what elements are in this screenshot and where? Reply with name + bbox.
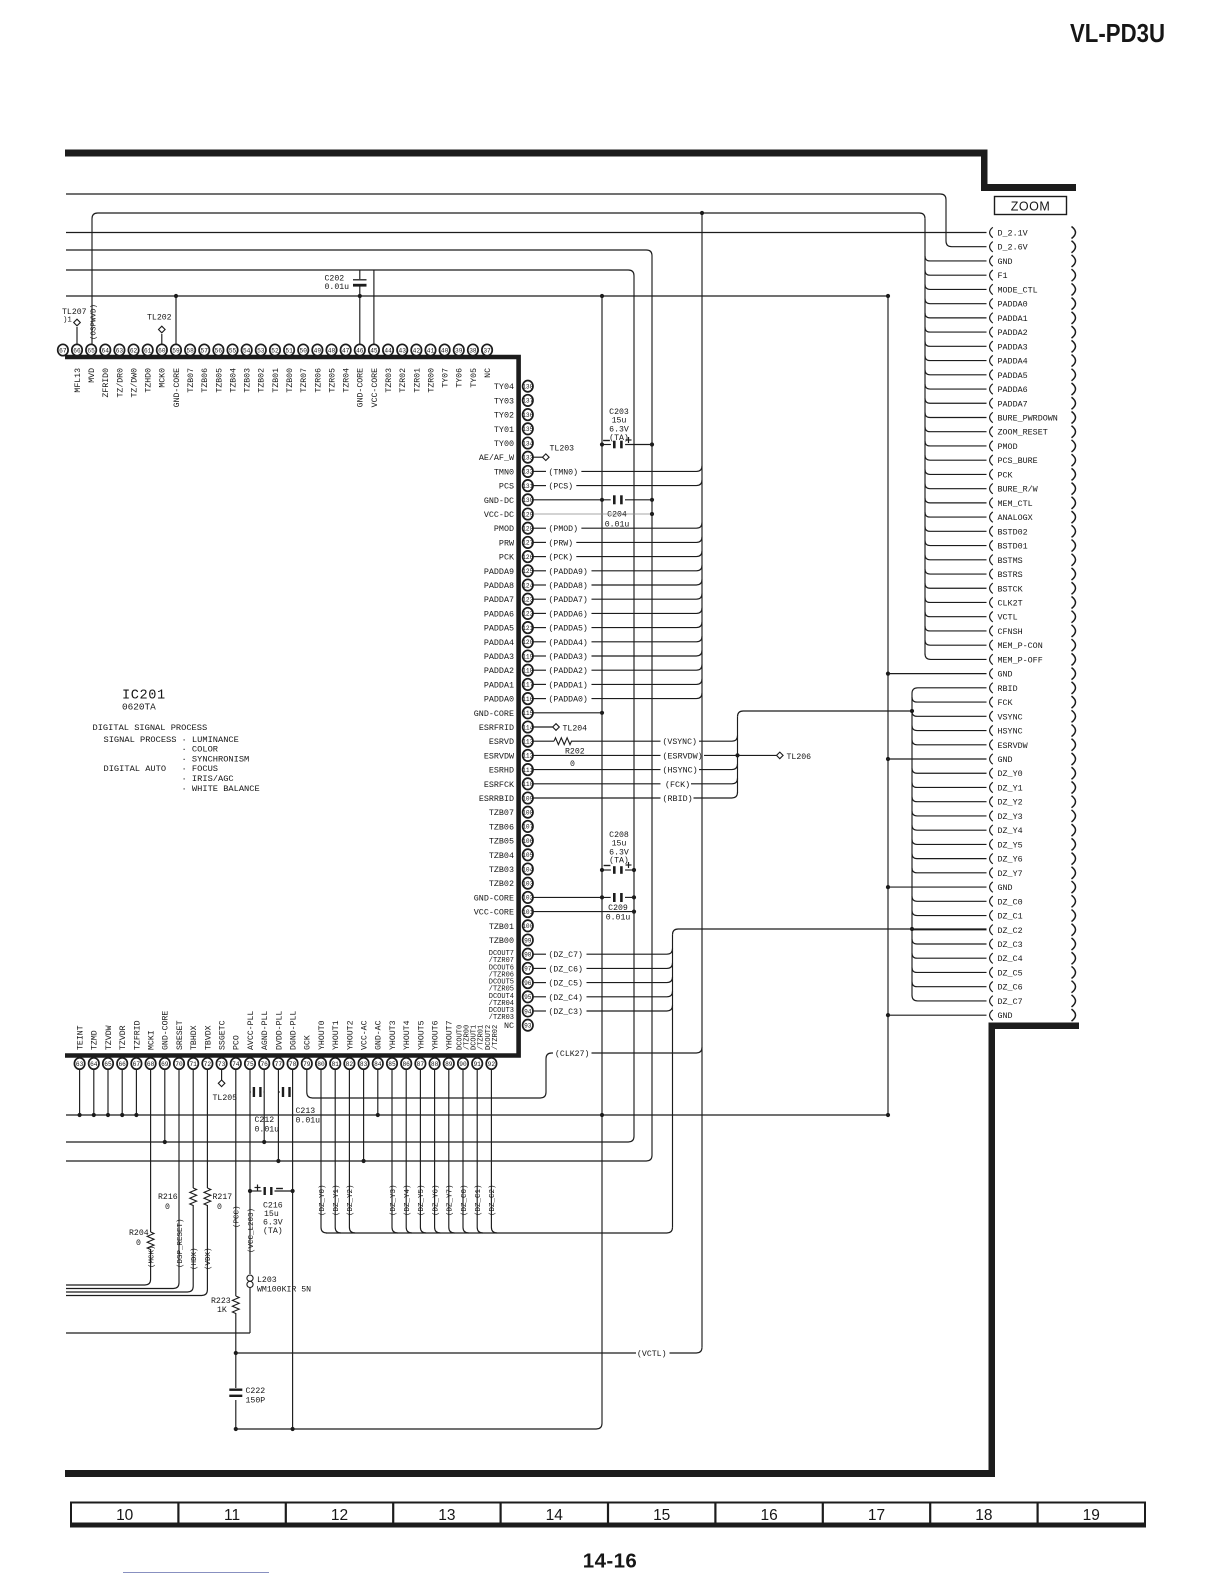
wire pin 66 to bus1 [121,1070,123,1116]
IC201 top pin 55 TZB04 [227,344,237,355]
svg-text:72: 72 [204,1061,212,1068]
IC201 top pin 56 TZB05 [213,344,223,355]
svg-text:PADDA3: PADDA3 [998,342,1028,352]
svg-text:76: 76 [260,1061,268,1068]
wire (PCS) from pin 131 [533,485,546,487]
capacitor C212 [249,1091,252,1093]
connector pin D_2.6V row 1 [990,242,993,252]
svg-text:61: 61 [144,347,152,354]
IC201 bottom pin 73 [216,1058,226,1069]
svg-text:78: 78 [289,1061,297,1068]
svg-text:GND: GND [998,257,1013,267]
svg-text:103: 103 [522,881,533,888]
wire top feed line y194 to connector D_2.6V via corner x946 [66,194,987,247]
wire line y1333 to left edge [66,1332,250,1334]
svg-text:TZHD0: TZHD0 [145,368,154,393]
connector pin MEM_CTL row 19 [990,498,993,508]
svg-text:DZ_Y3: DZ_Y3 [998,812,1023,822]
svg-text:TZB00: TZB00 [489,936,514,946]
IC201 top pin 50 TZR07 [298,344,308,355]
svg-text:TY00: TY00 [494,439,514,449]
svg-text:PADDA4: PADDA4 [484,638,514,648]
svg-text:111: 111 [522,767,533,774]
connector pin PADDA3 row 8 [990,341,993,351]
svg-text:(DZ_Y0): (DZ_Y0) [319,1184,327,1216]
svg-text:TEINT: TEINT [77,1025,86,1050]
IC201 bottom pin 74 [231,1058,241,1069]
svg-text:15: 15 [653,1507,670,1524]
svg-text:PADDA6: PADDA6 [998,385,1028,395]
svg-text:GND: GND [998,1011,1013,1021]
svg-text:GND: GND [998,883,1013,893]
svg-text:ZOOM_RESET: ZOOM_RESET [998,428,1048,438]
svg-text:117: 117 [522,682,533,689]
wire stub to connector MODE_CTL [925,284,987,289]
connector pin BSTD01 row 22 [990,540,993,550]
IC201 right pin 136 [523,409,533,420]
wire stub to connector PADDA2 [925,327,987,332]
svg-text:(DZ_C6): (DZ_C6) [549,964,583,974]
svg-text:80: 80 [317,1061,325,1068]
svg-text:VCTL: VCTL [998,613,1018,623]
wire (ESRVDW) from pin 112 with test point TL206 [533,754,660,756]
wire pin 72 TBVDX / (VDX) with resistor R217 [206,1070,208,1189]
svg-text:132: 132 [522,469,533,476]
svg-text:73: 73 [218,1061,226,1068]
connector pin DZ_Y5 row 43 [990,839,993,849]
svg-text:TZB07: TZB07 [187,368,196,393]
IC201 right pin 95 [523,991,533,1002]
bottom grid ruler cells 10-19 [71,1503,1145,1527]
svg-text:VCC-CORE: VCC-CORE [474,908,514,918]
connector pin PMOD row 15 [990,441,993,451]
wire stub to connector DZ_Y4 [912,825,987,830]
connector pin BSTRS row 24 [990,569,993,579]
svg-text:PADDA5: PADDA5 [484,624,514,634]
wire pin 69 GND-CORE to bus2 [164,1070,166,1143]
IC201 bottom pin 86 [401,1058,411,1069]
wire stub to connector ZOOM_RESET [925,427,987,432]
connector pin DZ_Y7 row 45 [990,868,993,878]
IC201 right pin 126 [523,551,533,562]
wire stub to connector DZ_Y3 [912,811,987,816]
svg-text:150P: 150P [246,1397,266,1406]
IC201 right pin 118 [523,665,533,676]
IC201 top pin 37 NC [482,344,492,355]
svg-text:YHOUT0: YHOUT0 [318,1020,327,1050]
wire pin 71 TBHDX / (HDX) with resistor R216 [192,1070,194,1189]
connector pin PADDA2 row 7 [990,327,993,337]
svg-text:(PADDA2): (PADDA2) [549,666,588,676]
capacitor C208 between GND rail and x634 rail [602,869,611,871]
DZ bundle vertical x672.5 [672,935,674,1228]
wire stub to connector BSTD02 [925,526,987,531]
IC201 bottom pin 68 [145,1058,155,1069]
svg-text:TZB01: TZB01 [272,368,281,393]
connector pin BSTCK row 25 [990,583,993,593]
svg-text:39: 39 [455,347,463,354]
IC201 right pin 129 [523,508,533,519]
bus line 1 (GND) y1115 [66,1114,888,1116]
IC201 top pin 53 TZB02 [256,344,266,355]
svg-text:14-16: 14-16 [583,1550,637,1573]
svg-text:R217: R217 [213,1193,233,1202]
svg-text:AVCC-PLL: AVCC-PLL [247,1011,256,1050]
IC201 bottom pin 88 [429,1058,439,1069]
svg-text:TZB03: TZB03 [489,865,514,875]
svg-text:VCC-DC: VCC-DC [484,510,514,520]
svg-text:TL206: TL206 [787,753,812,762]
svg-text:(DSP_RESET): (DSP_RESET) [177,1218,185,1268]
svg-text:129: 129 [522,511,533,518]
svg-text:87: 87 [417,1061,425,1068]
svg-text:TZVDW: TZVDW [105,1025,114,1050]
svg-text:PMOD: PMOD [494,524,514,534]
IC201 bottom pin 92 [486,1058,496,1069]
svg-text:SSGETC: SSGETC [219,1020,228,1050]
wire stub to connector PADDA7 [925,398,987,403]
svg-text:66: 66 [73,347,81,354]
svg-text:· IRIS/AGC: · IRIS/AGC [182,774,234,784]
node DZ_C2 junction [910,927,914,931]
connector pin ANALOGX row 20 [990,512,993,522]
svg-text:(PADDA3): (PADDA3) [549,652,588,662]
IC201 bottom pin 87 [415,1058,425,1069]
svg-text:TZB04: TZB04 [229,368,238,393]
svg-text:(RBID): (RBID) [663,794,693,804]
IC201 bottom pin 70 [174,1058,184,1069]
connector pin BURE_R/W row 18 [990,483,993,493]
svg-text:63: 63 [116,347,124,354]
svg-text:PMOD: PMOD [998,442,1018,452]
svg-text:PCS: PCS [499,482,514,492]
IC201 partial pin 67 at page cut [58,344,68,355]
svg-text:127: 127 [522,540,533,547]
IC201 right pin 108 [523,807,533,818]
svg-text:ESRFCK: ESRFCK [484,780,515,790]
svg-text:44: 44 [384,347,392,354]
IC201 right pin 128 [523,523,533,534]
wire stub to connector PCK [925,469,987,474]
svg-text:TZB02: TZB02 [489,879,514,889]
inductor L203 [247,1275,253,1281]
wire stub to connector PCS_BURE [925,455,987,460]
svg-text:/TZR02: /TZR02 [492,1025,500,1050]
svg-text:PADDA2: PADDA2 [998,328,1028,338]
IC201 top pin 62 TZ/DW0 [128,344,138,355]
svg-text:41: 41 [427,347,435,354]
svg-text:YHOUT5: YHOUT5 [417,1020,426,1050]
IC201 right pin 134 [523,437,533,448]
IC201 right pin 127 [523,537,533,548]
svg-text:0: 0 [570,760,575,769]
wire pin 67 to bus1 [135,1070,137,1116]
svg-text:· LUMINANCE: · LUMINANCE [182,735,239,745]
svg-text:(TA): (TA) [609,856,629,866]
connector pin BSTD02 row 21 [990,526,993,536]
connector pin DZ_C0 row 47 [990,896,993,906]
svg-text:HSYNC: HSYNC [998,727,1023,737]
wire (PRW) from pin 127 [533,541,546,543]
svg-text:120: 120 [522,639,533,646]
test point TL207 on pin 66 [76,327,78,345]
connector pin DZ_C5 row 52 [990,967,993,977]
IC201 right pin 116 [523,693,533,704]
wire pin 129 VCC-DC to VCC rail [533,513,652,515]
connector pin D_2.1V row 0 [990,227,993,237]
svg-text:98: 98 [524,952,532,959]
IC201 top pin 39 TY06 [454,344,464,355]
IC201 right pin 102 [523,892,533,903]
wire stub to connector MEM_P-CON [925,640,987,645]
svg-text:TZB02: TZB02 [258,368,267,393]
capacitor C216 and node on VCC_L203 wire [250,1190,262,1192]
svg-text:100: 100 [522,923,533,930]
IC201 right pin 121 [523,622,533,633]
GND rail vertical x602 down to bottom wire y1429 [236,296,602,1429]
IC201 top pin 65 MVD [86,344,96,355]
wire (HSYNC) from pin 111 [533,769,660,771]
wire pin 130 GND-DC through capacitor C204 [533,499,611,501]
svg-text:0: 0 [165,1203,170,1212]
svg-text:GND-AC: GND-AC [375,1020,384,1050]
wire D_2.1V feed line y232.5 [66,232,987,234]
IC201 right pin 123 [523,594,533,605]
svg-text:AE/AF_W: AE/AF_W [479,453,515,463]
svg-text:GND-CORE: GND-CORE [162,1011,171,1050]
IC201 top pin 38 TY05 [468,344,478,355]
wire stub to connector DZ_C6 [912,982,987,987]
svg-text:ESRVD: ESRVD [489,737,514,747]
svg-text:YHOUT1: YHOUT1 [332,1020,341,1050]
svg-text:DIGITAL SIGNAL PROCESS: DIGITAL SIGNAL PROCESS [93,723,208,733]
svg-text:(DZ_C2): (DZ_C2) [489,1184,497,1216]
svg-text:TZMD: TZMD [91,1030,100,1050]
IC201 top pin 60 MCK0 [157,344,167,355]
wire pin 65 to bus1 [107,1070,109,1116]
svg-text:BSTD02: BSTD02 [998,527,1028,537]
upper connector bundle vertical x925 [924,219,926,655]
svg-text:57: 57 [201,347,209,354]
IC201 bottom pin 75 [245,1058,255,1069]
svg-text:97: 97 [524,966,532,973]
svg-text:(PADDA7): (PADDA7) [549,595,588,605]
svg-text:YHOUT2: YHOUT2 [346,1020,355,1050]
lower connector bundle vertical x912 [911,694,913,996]
svg-text:65: 65 [87,347,95,354]
wire pin 59 GND-CORE up to GND line y296 [175,296,177,345]
connector pin MODE_CTL row 4 [990,284,993,294]
svg-text:102: 102 [522,895,533,902]
svg-text:GND: GND [998,755,1013,765]
svg-text:TY04: TY04 [494,382,514,392]
svg-text:(VDX): (VDX) [205,1247,213,1270]
svg-text:GND-CORE: GND-CORE [357,368,366,407]
wire (PADDA4) from pin 120 [533,641,546,643]
svg-text:C204: C204 [607,511,627,520]
wire pin 102 GND-CORE through capacitor C209 [533,896,611,898]
connector pin GND row 46 [990,882,993,892]
svg-text:PADDA4: PADDA4 [998,357,1028,367]
svg-text:TZB03: TZB03 [244,368,253,393]
svg-text:DZ_Y4: DZ_Y4 [998,826,1023,836]
svg-text:ESRFRID: ESRFRID [479,723,514,733]
IC201 right pin 93 [523,1019,533,1030]
svg-text:75: 75 [246,1061,254,1068]
wire stub to connector DZ_C0 [912,896,987,901]
test point TL202 on pin 60 [161,334,163,345]
svg-text:F1: F1 [998,271,1008,281]
IC201 top pin 58 TZB07 [185,344,195,355]
connector pin MEM_P-CON row 29 [990,640,993,650]
wire (DZ_C1) from pin 91 [477,1070,483,1234]
svg-text:CFNSH: CFNSH [998,627,1023,637]
wire stub to connector FCK [912,697,987,702]
svg-text:110: 110 [522,781,533,788]
wire (DZ_C2) from pin 92 [491,1070,497,1234]
svg-text:DZ_C5: DZ_C5 [998,968,1023,978]
IC201 top pin 54 TZB03 [241,344,251,355]
wire (RBID) from pin 109 [533,797,660,799]
svg-text:PCO: PCO [233,1035,242,1050]
svg-text:(PADDA5): (PADDA5) [549,624,588,634]
svg-text:(DZ_C3): (DZ_C3) [549,1007,583,1017]
svg-text:· SYNCHRONISM: · SYNCHRONISM [182,754,250,764]
IC201 top pin 42 TZR01 [411,344,421,355]
svg-text:DZ_Y0: DZ_Y0 [998,769,1023,779]
svg-text:136: 136 [522,412,533,419]
connector pin MEM_P-OFF row 30 [990,654,993,664]
sheet border bottom bar [65,1470,995,1477]
svg-text:PRW: PRW [499,538,515,548]
IC201 top pin 57 TZB06 [199,344,209,355]
wire pin 64 to bus1 [93,1070,95,1116]
svg-text:0.01u: 0.01u [255,1126,280,1135]
wire stub to connector BSTCK [925,583,987,588]
svg-text:62: 62 [130,347,138,354]
svg-text:(DZ_Y2): (DZ_Y2) [347,1184,355,1216]
IC201 bottom pin 71 [188,1058,198,1069]
connector pin DZ_Y0 row 38 [990,768,993,778]
svg-text:43: 43 [399,347,407,354]
wire (DZ_C3) from pin 94 to DZ bundle [533,1010,546,1012]
svg-text:MFL13: MFL13 [74,368,83,393]
wire (PADDA7) from pin 123 [533,598,546,600]
IC201 right pin 105 [523,849,533,860]
svg-text:MEM_P-OFF: MEM_P-OFF [998,655,1043,665]
svg-text:(PADDA8): (PADDA8) [549,581,588,591]
wire GND line y296 to GND rail [66,295,888,297]
connector pin DZ_Y6 row 44 [990,853,993,863]
svg-text:(DZ_C1): (DZ_C1) [475,1184,483,1216]
svg-text:PADDA7: PADDA7 [998,399,1028,409]
wire GND stub row 55 [888,1014,987,1016]
connector pin DZ_Y3 row 41 [990,811,993,821]
svg-text:(PMOD): (PMOD) [549,524,578,534]
IC201 top pin 45 VCC-CORE [369,344,379,355]
svg-text:D_2.6V: D_2.6V [998,243,1028,253]
test point TL203 on pin 133 AE/AF_W [533,456,542,458]
svg-text:GCK: GCK [304,1035,313,1050]
connector pin PADDA4 row 9 [990,355,993,365]
IC201 bottom pin 89 [444,1058,454,1069]
wire stub to connector MEM_P-OFF [925,654,987,660]
connector pin DZ_C7 row 54 [990,996,993,1006]
IC201 right pin 101 [523,906,533,917]
connector pin DZ_C1 row 48 [990,910,993,920]
connector pin BSTMS row 23 [990,555,993,565]
svg-text:45: 45 [370,347,378,354]
svg-text:0.01u: 0.01u [606,914,631,923]
svg-text:DZ_Y6: DZ_Y6 [998,855,1023,865]
svg-text:TL202: TL202 [147,314,172,323]
IC201 bottom pin 77 [273,1058,283,1069]
svg-text:TZB06: TZB06 [489,822,514,832]
svg-text:(DZ_Y7): (DZ_Y7) [447,1184,455,1216]
svg-text:TZR06: TZR06 [314,368,323,393]
svg-text:(DZ_Y5): (DZ_Y5) [418,1184,426,1216]
wire stub to connector DZ_Y5 [912,839,987,844]
svg-text:ESRVDW: ESRVDW [484,751,515,761]
svg-text:TY02: TY02 [494,411,514,421]
svg-text:116: 116 [522,696,533,703]
IC201 right pin 109 [523,792,533,803]
IC201 top pin 44 TZR03 [383,344,393,355]
svg-text:DZ_Y1: DZ_Y1 [998,783,1023,793]
svg-text:137: 137 [522,398,533,405]
IC201 right pin 117 [523,679,533,690]
connector pin VSYNC row 34 [990,711,993,721]
svg-text:PADDA1: PADDA1 [998,314,1028,324]
wire (DZ_Y0) from pin 80 [321,1070,327,1234]
svg-text:58: 58 [186,347,194,354]
IC201 right pin 115 [523,707,533,718]
svg-text:BURE_PWRDOWN: BURE_PWRDOWN [998,413,1058,423]
wire (PCK) from pin 126 [533,556,546,558]
svg-text:(PADDA9): (PADDA9) [549,567,588,577]
wire VCC feed line y250 + rail x652 + bus line y1161 [66,250,652,1161]
IC201 top pin 63 TZ/DR0 [114,344,124,355]
IC201 top pin 47 TZR04 [340,344,350,355]
op-amp/IC body IC201 outline [65,357,519,1056]
svg-text:108: 108 [522,810,533,817]
svg-text:109: 109 [522,795,533,802]
svg-text:GND-CORE: GND-CORE [474,893,514,903]
svg-text:105: 105 [522,852,533,859]
connector pin GND row 55 [990,1010,993,1020]
svg-text:DZ_C3: DZ_C3 [998,940,1023,950]
svg-text:DZ_C2: DZ_C2 [998,926,1023,936]
wire pin 63 to bus1 [79,1070,81,1116]
wire (DZ_Y6) from pin 88 [435,1070,441,1234]
svg-text:(PRW): (PRW) [549,538,574,548]
svg-text:TZR01: TZR01 [413,368,422,393]
IC201 right pin 138 [523,381,533,392]
svg-text:60: 60 [158,347,166,354]
svg-text:TBVDX: TBVDX [204,1025,213,1050]
svg-text:15u: 15u [612,840,627,849]
IC201 top pin 64 ZFRID0 [100,344,110,355]
connector pin DZ_Y2 row 40 [990,797,993,807]
svg-text:113: 113 [522,739,533,746]
svg-text:(PCK): (PCK) [549,553,574,563]
IC201 bottom pin 64 [89,1058,99,1069]
IC201 right pin 137 [523,395,533,406]
svg-text:70: 70 [175,1061,183,1068]
IC201 right pin 133 [523,452,533,463]
svg-text:D_2.1V: D_2.1V [998,229,1028,239]
svg-text:PADDA3: PADDA3 [484,652,514,662]
